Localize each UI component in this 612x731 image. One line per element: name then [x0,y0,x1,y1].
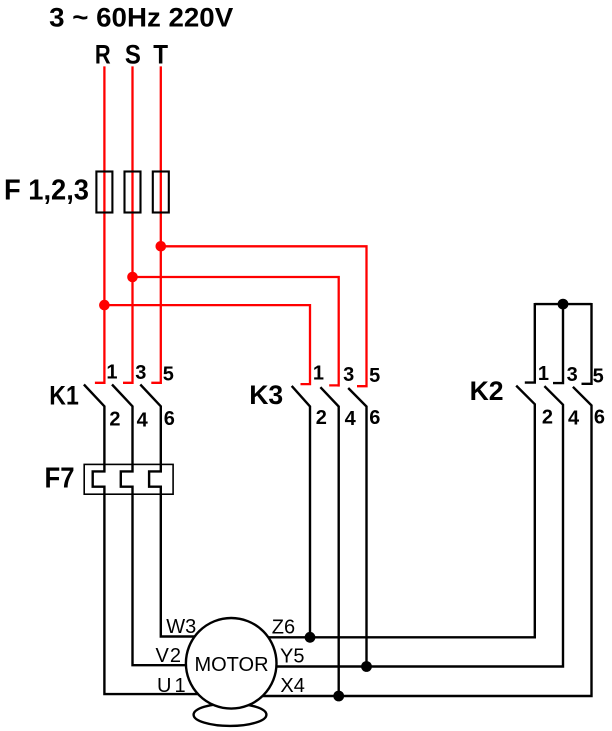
svg-text:W3: W3 [166,616,196,638]
svg-text:4: 4 [137,409,149,431]
svg-text:2: 2 [109,408,120,430]
svg-text:5: 5 [369,365,380,387]
svg-text:Y5: Y5 [280,646,304,668]
svg-text:S: S [125,39,141,69]
svg-text:1: 1 [538,363,549,385]
svg-text:3: 3 [567,364,578,386]
svg-text:6: 6 [369,407,380,429]
svg-text:K3: K3 [249,380,283,410]
svg-text:4: 4 [568,408,580,430]
svg-text:T: T [153,39,168,69]
svg-text:U1: U1 [157,675,189,697]
svg-text:V2: V2 [156,645,182,667]
svg-text:4: 4 [345,408,357,430]
svg-text:K2: K2 [470,376,504,406]
svg-text:F7: F7 [45,463,75,495]
svg-text:1: 1 [106,361,117,383]
svg-text:1: 1 [313,363,324,385]
svg-text:X4: X4 [280,675,304,697]
svg-text:2: 2 [542,406,553,428]
svg-text:6: 6 [594,406,605,428]
svg-text:F 1,2,3: F 1,2,3 [4,175,89,207]
svg-text:R: R [95,39,111,69]
svg-text:K1: K1 [49,381,79,411]
svg-text:2: 2 [316,407,327,429]
svg-text:6: 6 [164,408,175,430]
svg-text:5: 5 [163,364,174,386]
svg-text:3 ~ 60Hz 220V: 3 ~ 60Hz 220V [49,3,233,33]
svg-text:MOTOR: MOTOR [194,654,268,676]
svg-text:3: 3 [135,362,146,384]
svg-text:5: 5 [593,365,604,387]
svg-text:3: 3 [343,364,354,386]
svg-text:Z6: Z6 [272,617,295,639]
